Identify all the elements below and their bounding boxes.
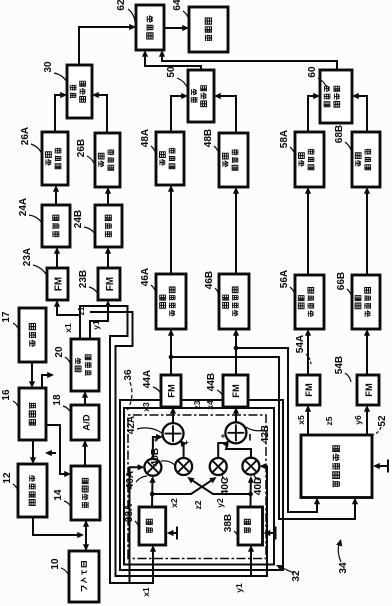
svg-text:x2: x2 — [169, 498, 179, 508]
svg-text:26A: 26A — [20, 127, 31, 145]
wire adder42A-FM44A — [172, 409, 174, 423]
outer group box 34 — [120, 400, 283, 570]
wire FM23B-amp24B — [107, 249, 109, 268]
svg-text:z2: z2 — [193, 500, 203, 509]
svg-text:24A: 24A — [18, 198, 29, 216]
svg-text:x1: x1 — [141, 587, 151, 597]
svg-text:30: 30 — [43, 61, 54, 73]
svg-text:+: + — [182, 440, 191, 445]
svg-text:y1: y1 — [91, 320, 101, 330]
wire FM44A-avg46A with tap dot — [170, 331, 172, 375]
block 46A spatial averager — [156, 274, 186, 329]
svg-text:42B: 42B — [260, 425, 271, 443]
wire velocity50-combiner62 — [145, 52, 201, 70]
wire FM54A-avg56A — [307, 331, 309, 375]
svg-text:+: + — [152, 437, 161, 442]
svg-text:y1: y1 — [234, 583, 244, 593]
block 64 display — [189, 7, 228, 52]
svg-text:62: 62 — [116, 0, 127, 11]
block 58A scan converter — [295, 132, 324, 187]
wire delay38B-mixer40D — [250, 478, 252, 507]
block 24B amplifier — [95, 205, 122, 247]
svg-text:50: 50 — [166, 66, 177, 78]
wire corr52-FM54B — [366, 407, 368, 435]
svg-text:y6: y6 — [353, 415, 363, 425]
svg-text:y2: y2 — [215, 498, 225, 508]
svg-text:10: 10 — [50, 558, 61, 570]
block 48B scan converter — [219, 133, 248, 187]
block 62 combiner — [136, 5, 164, 50]
block 12 transmit circuit — [18, 464, 47, 517]
svg-text:60: 60 — [307, 66, 318, 78]
block 50 velocity calculator — [188, 70, 214, 122]
adder 42A — [163, 423, 184, 444]
svg-text:58A: 58A — [279, 130, 290, 148]
wire y1 branch to delay 38B — [90, 312, 251, 576]
block 54A FM — [297, 375, 320, 405]
svg-text:FM: FM — [303, 383, 314, 397]
svg-text:14: 14 — [53, 489, 64, 501]
svg-text:40A: 40A — [125, 471, 136, 489]
block 26B scan converter — [95, 133, 120, 187]
svg-text:FM: FM — [105, 277, 116, 291]
svg-text:x4: x4 — [205, 400, 215, 410]
svg-text:46B: 46B — [204, 271, 215, 289]
wire input-to-control — [31, 362, 33, 386]
svg-text:54B: 54B — [334, 356, 345, 374]
wire control stub arrow — [42, 375, 52, 388]
block 14 receive circuit — [71, 466, 100, 520]
wire x1 to FM23A — [57, 302, 80, 339]
block 66B spatial averager — [352, 275, 380, 329]
mixer 40D — [242, 458, 259, 475]
svg-text:z3: z3 — [192, 400, 202, 409]
mixer 40C — [210, 458, 227, 475]
correlator 52 reference stub — [375, 465, 388, 467]
block 38A delay — [139, 507, 166, 545]
wire avg56A-conv58A — [307, 189, 309, 275]
wire amp24B-conv26B — [107, 189, 109, 205]
block 23A FM demodulator — [47, 268, 68, 300]
block 38B delay — [238, 507, 263, 545]
svg-text:48A: 48A — [140, 129, 151, 147]
wire AD-to-detector — [84, 393, 86, 405]
svg-text:48B: 48B — [203, 129, 214, 147]
svg-text:52: 52 — [377, 415, 388, 427]
wire conv58A-accel60 — [308, 96, 318, 132]
svg-text:x3: x3 — [141, 402, 151, 412]
block 23B FM demodulator — [98, 268, 120, 300]
wire FM44B-avg46B with tap dot — [235, 331, 237, 375]
svg-text:FM: FM — [363, 383, 374, 397]
wire conv68B-accel60 — [354, 96, 367, 132]
svg-text:18: 18 — [52, 394, 63, 406]
wire probe-transmit — [33, 517, 82, 535]
wire mixer40D-adder42B — [226, 443, 251, 457]
block 46B spatial averager — [219, 274, 249, 329]
wire x1 branch to demodulator — [80, 306, 153, 583]
block 18 A/D converter — [71, 405, 99, 440]
block 26A scan converter — [42, 132, 68, 185]
block 52 correlator — [301, 435, 372, 498]
wire control-to-transmit — [32, 440, 34, 462]
svg-text:23B: 23B — [78, 270, 89, 288]
wire receive-to-AD — [84, 442, 86, 466]
svg-text:36: 36 — [123, 369, 134, 381]
svg-text:44A: 44A — [142, 370, 153, 388]
svg-text:38B: 38B — [223, 514, 234, 532]
svg-text:23A: 23A — [22, 248, 33, 266]
dash-dot group box 36 — [128, 415, 266, 559]
wire y1 to FM23B — [90, 302, 108, 339]
mixer 40A — [144, 459, 161, 476]
wire delay38A diagonal to mixer 40C — [152, 478, 214, 494]
block 68B scan converter — [352, 132, 380, 187]
svg-text:46A: 46A — [140, 268, 151, 286]
wire x1 riser to mixer 40A — [130, 467, 143, 583]
svg-text:68B: 68B — [334, 125, 345, 143]
wire tap44A to correlator 52 — [171, 357, 355, 519]
block 20 quadrature detector — [71, 339, 99, 391]
wire FM23A-amp24A — [56, 249, 58, 268]
wire FM54B-avg66B — [366, 331, 368, 375]
svg-text:24B: 24B — [73, 210, 84, 228]
wire combiner62-display64 — [164, 27, 187, 29]
svg-text:A/D: A/D — [82, 414, 93, 431]
svg-text:z1: z1 — [76, 306, 86, 315]
block 48A scan converter — [156, 132, 184, 185]
svg-text:20: 20 — [54, 346, 65, 358]
block 44B FM — [223, 375, 248, 407]
wire delay38A-mixer40A — [151, 478, 154, 507]
svg-text:32: 32 — [291, 570, 302, 582]
block 17 input unit — [19, 308, 46, 362]
mixer 40B — [175, 458, 192, 475]
wire mixer40C-adder42B — [218, 441, 228, 457]
block 56A spatial averager — [295, 275, 324, 329]
svg-text:FM: FM — [54, 277, 65, 291]
wire conv26A-calc30 — [55, 95, 65, 132]
wire conv48B-velocity50 — [216, 96, 236, 133]
wire mixer40A-adder42A — [153, 437, 161, 459]
svg-text:26B: 26B — [76, 139, 87, 157]
wire adder42B-FM44B — [235, 409, 237, 422]
group box 32 — [124, 408, 274, 565]
wire accel60-combiner62 — [162, 52, 337, 70]
wire delay38B diagonal to mixer 40B — [189, 478, 250, 494]
block 60 acceleration calculator — [320, 70, 352, 123]
wire mixer40B-adder42A — [181, 441, 184, 458]
svg-text:34: 34 — [338, 562, 349, 574]
wire avg46B-conv48B — [235, 189, 237, 274]
wire probe-receive (bidirectional) — [85, 520, 87, 551]
wire control-to-receive — [46, 425, 69, 474]
svg-text:z5: z5 — [324, 416, 334, 425]
svg-text:64: 64 — [172, 0, 183, 11]
svg-text:x1: x1 — [63, 323, 73, 333]
wire avg66B-conv68B — [366, 189, 368, 275]
wire corr52-FM54A — [307, 407, 309, 435]
block 24A amplifier — [42, 205, 70, 247]
block 16 controller — [19, 388, 46, 440]
svg-text:42A: 42A — [126, 416, 137, 434]
floating arrow near transmit — [49, 452, 56, 454]
svg-text:16: 16 — [1, 389, 12, 401]
svg-text:FM: FM — [166, 384, 177, 398]
svg-text:38A: 38A — [124, 504, 135, 522]
svg-text:44B: 44B — [206, 373, 217, 391]
wire conv26B-calc30 — [94, 95, 107, 133]
svg-text:12: 12 — [2, 472, 13, 484]
minus sign at 42B lower input — [249, 434, 251, 441]
wire conv48A-velocity50 — [171, 96, 186, 132]
delay 38A reference stub — [169, 532, 177, 534]
wire calc30-combiner62 — [79, 27, 134, 65]
svg-text:66B: 66B — [336, 272, 347, 290]
wire amp24A-conv26A — [55, 187, 57, 205]
delay 38B reference stub — [266, 532, 276, 534]
svg-text:56A: 56A — [279, 270, 290, 288]
wire tap44B to correlator 52 — [236, 348, 317, 512]
block 10 probe — [69, 551, 99, 602]
svg-text:FM: FM — [230, 384, 241, 398]
block 44A FM — [161, 375, 181, 407]
svg-text:54A: 54A — [295, 335, 306, 353]
block 54B FM — [357, 375, 379, 405]
wire y1 riser to mixer 40D — [251, 466, 267, 576]
wire avg46A-conv48A — [170, 187, 172, 274]
block 30 amplitude calculator — [67, 65, 92, 118]
adder 42B — [225, 422, 246, 443]
svg-text:17: 17 — [1, 311, 12, 323]
svg-text:40B: 40B — [150, 448, 161, 466]
svg-text:x5: x5 — [296, 415, 306, 425]
